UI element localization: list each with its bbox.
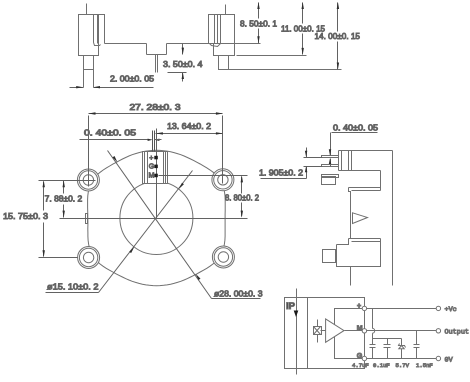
top-view right mid tier — [214, 44, 235, 56]
top-view bar ledge line — [147, 54, 167, 56]
top-view right pin (up) — [225, 5, 227, 15]
top-view bar step down left — [146, 44, 148, 55]
svg-text:13. 64±0. 2: 13. 64±0. 2 — [167, 121, 211, 131]
terminal 0V circle — [436, 356, 440, 360]
Output rail — [367, 330, 437, 332]
side connector verticals — [338, 151, 340, 171]
IP current arrow — [294, 311, 299, 318]
IP current line — [296, 289, 298, 375]
dim 7.88 line — [63, 181, 65, 194]
svg-text:1. 905±0. 2: 1. 905±0. 2 — [259, 167, 303, 177]
connector block on top of circle — [143, 152, 168, 184]
side pin 2 — [322, 165, 339, 167]
top-view right block inner line 2 — [217, 15, 219, 44]
top-view ext line y43 for 8.50 — [234, 43, 261, 45]
left small tab on body — [86, 214, 88, 224]
lower boss top lines — [349, 238, 381, 240]
+Vc rail — [367, 308, 437, 310]
top-view ext line y55 for 11.00 — [237, 55, 307, 57]
opamp supply wire from + — [335, 309, 365, 331]
node G (pin circle) — [362, 356, 366, 360]
direction triangle mark — [353, 213, 368, 224]
dim 0.40 side underline — [332, 132, 378, 134]
dim 0.40 arrows — [148, 139, 153, 141]
hall element stub bottom — [317, 335, 319, 343]
opamp supply wire to G — [335, 333, 365, 359]
vertical centerline — [156, 129, 158, 219]
svg-text:7. 88±0. 2: 7. 88±0. 2 — [45, 194, 83, 204]
body left edge between bosses — [350, 195, 352, 239]
0V rail — [367, 358, 437, 360]
svg-text:0. 40±0. 05: 0. 40±0. 05 — [333, 123, 378, 133]
horizontal centerline — [60, 218, 248, 220]
svg-text:4.7uF: 4.7uF — [352, 362, 369, 369]
wire hall to opamp — [321, 330, 326, 332]
capacitor C1 4.7uF plates — [370, 344, 376, 346]
svg-text:0V: 0V — [445, 356, 454, 364]
dia 15.10 dim line (up-right diagonal of X) — [99, 171, 193, 293]
top-view left leg right edge — [93, 56, 95, 88]
top-view baseline from right leg — [229, 69, 342, 71]
upper boss step — [349, 188, 351, 195]
svg-text:14. 00±0. 15: 14. 00±0. 15 — [315, 31, 361, 41]
hall sensor element (box with X) — [314, 327, 322, 335]
top-view left leg left edge — [83, 56, 85, 88]
dim 1.905 underline — [261, 178, 307, 180]
dim 1.905 line and arrows — [306, 148, 308, 158]
slot line right — [154, 131, 156, 152]
side tab under pin3 — [322, 177, 336, 185]
svg-text:ø15. 10±0. 2: ø15. 10±0. 2 — [47, 281, 99, 291]
top-view bar top line right segment — [167, 43, 209, 45]
side pin 1 — [322, 156, 339, 158]
side pin 3 — [322, 175, 339, 178]
dim 0.40 side leader and arrows — [330, 133, 332, 156]
M pin line to right — [159, 175, 248, 177]
svg-text:5.7V: 5.7V — [396, 362, 410, 369]
IP conductor divider — [307, 298, 309, 369]
dim 0.40 underline — [80, 139, 149, 141]
terminal Output circle — [436, 329, 440, 333]
upper boss bottom lines — [349, 187, 381, 189]
svg-text:+: + — [357, 303, 361, 310]
svg-text:M: M — [149, 173, 155, 180]
dia 28.00 underline — [212, 298, 261, 300]
svg-text:15. 75±0. 3: 15. 75±0. 3 — [3, 211, 48, 221]
front inner circle — [120, 182, 193, 255]
top-view bar top line left segment — [105, 43, 147, 45]
ext line y257.5 left — [39, 257, 78, 259]
pin squares and labels — [154, 156, 158, 177]
dim 13.64 line — [156, 133, 223, 135]
capacitor C2 0.1uF — [387, 339, 389, 345]
top-view left pin (up) — [86, 4, 88, 15]
lower boss body — [337, 239, 381, 267]
svg-text:0. 40±0. 05: 0. 40±0. 05 — [84, 128, 136, 138]
svg-text:IP: IP — [286, 301, 296, 312]
svg-text:1.5nF: 1.5nF — [416, 362, 433, 369]
side bottom leg — [350, 267, 352, 286]
top-view right block body — [209, 15, 235, 44]
dim 27.28 ext left — [88, 116, 90, 187]
svg-text:8. 50±0. 1: 8. 50±0. 1 — [240, 18, 277, 28]
svg-text:8. 80±0. 2: 8. 80±0. 2 — [225, 193, 259, 203]
svg-text:0.1uF: 0.1uF — [373, 362, 390, 369]
ear bottom-right — [212, 246, 234, 268]
top-view middle pin line 1 — [155, 55, 157, 73]
svg-text:2. 00±0. 05: 2. 00±0. 05 — [110, 73, 154, 83]
top-view left block crimp hook — [94, 43, 101, 46]
dim 15.75 line — [43, 182, 45, 211]
side view top edge — [339, 150, 393, 152]
4.7uF branch wire with hop over Output rail — [372, 309, 374, 329]
side view right edge — [392, 151, 394, 286]
svg-text:Output: Output — [445, 329, 469, 337]
svg-text:27. 28±0. 3: 27. 28±0. 3 — [130, 102, 181, 112]
top-view left block upper-right extension — [99, 15, 105, 44]
node M (pin circle) — [362, 329, 366, 333]
dim 11.00±0.15 line — [302, 3, 304, 24]
svg-text:+: + — [149, 155, 153, 162]
dim 1.905 ext lines — [304, 157, 323, 159]
ext line y180 left — [39, 180, 96, 182]
ear top-left — [77, 169, 99, 191]
top-view right block inner line 3 — [220, 15, 222, 44]
dim 27.28 ext right — [222, 116, 224, 184]
top-view left leg joint line — [84, 69, 94, 71]
ear bottom-left — [78, 247, 100, 269]
dim 2.00±0.05 line — [70, 87, 84, 89]
zener diode D1 5.7V — [401, 339, 403, 346]
dim 27.28 line — [89, 113, 223, 115]
schematic outer box — [285, 298, 365, 369]
top-view right block inner line 1 — [214, 15, 216, 44]
dim 14.00±0.15 line — [337, 3, 339, 32]
top-view left block body — [79, 15, 99, 56]
lower boss step — [337, 239, 349, 245]
wire opamp to M — [345, 330, 365, 332]
hall element stub top — [317, 320, 319, 327]
op-amp U1 triangle — [326, 319, 344, 342]
ear top-right — [212, 169, 234, 191]
top-view bar step up right — [166, 44, 168, 55]
svg-text:3. 50±0. 4: 3. 50±0. 4 — [163, 59, 203, 69]
node + (pin circle) — [362, 306, 366, 310]
svg-text:G: G — [149, 164, 154, 171]
lower-left tab — [323, 250, 336, 263]
upper boss right edge — [380, 171, 382, 191]
ext line at pin bottom — [168, 72, 187, 74]
top-view right leg — [219, 56, 229, 70]
dim 3.50±0.4 line — [182, 44, 184, 55]
dia 15.10 underline — [46, 292, 99, 294]
dia 28.00 dim line (up-left diagonal of X) — [108, 151, 212, 299]
dim 8.80 line — [241, 177, 243, 194]
capacitor C3 1.5nF — [416, 331, 418, 345]
front body outer circle — [88, 150, 226, 285]
upper boss top — [339, 170, 381, 172]
svg-text:+Vc: +Vc — [445, 306, 457, 314]
terminal +Vc circle — [436, 306, 440, 310]
top-view left block inner line 1 — [93, 15, 95, 43]
svg-text:ø28. 00±0. 3: ø28. 00±0. 3 — [214, 288, 263, 298]
dim 8.50±0.1 line — [258, 3, 260, 19]
top-view middle pin line 2 — [157, 55, 159, 73]
top-view left block inner line 2 — [97, 15, 99, 44]
top-view right block crimp hook — [210, 44, 221, 47]
branch line — [373, 338, 402, 340]
slot line left — [152, 131, 154, 152]
